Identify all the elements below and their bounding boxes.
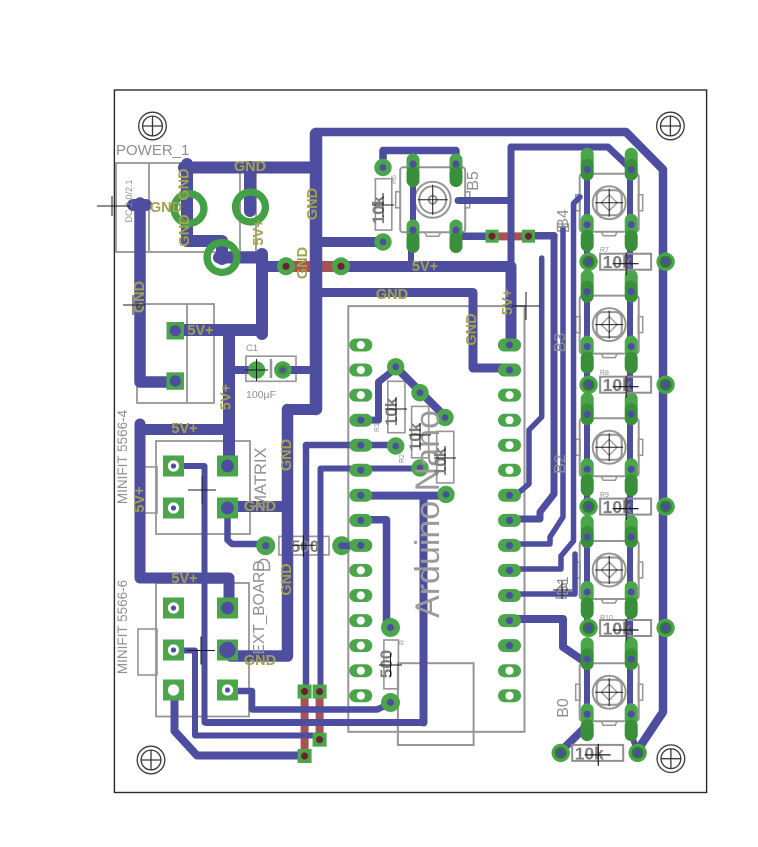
svg-text:10k: 10k [369,195,388,224]
mounting hole bottom-left [137,746,165,774]
wire 5V+ rail top left seg [262,261,284,272]
board outline frame [114,90,706,793]
svg-text:5V+: 5V+ [251,219,267,245]
pads B0 [581,637,638,741]
pad R3 top [436,409,453,426]
wire fan trace 1 [509,258,542,494]
PADS LAYER [163,148,675,766]
resistor R2 body [412,406,429,457]
svg-text:MATRIX: MATRIX [252,447,270,508]
svg-text:B2: B2 [552,454,569,474]
resistor R8 [579,375,674,398]
wire MATRIX pin bus [174,466,205,723]
transistor T1 outline [558,224,569,231]
wire GND top rail power [184,162,316,174]
svg-text:GND: GND [132,281,148,313]
svg-text:R2: R2 [399,454,406,463]
node origin R6 [372,193,394,217]
wire GND top rail to B column [316,132,663,751]
resistor R1 body [388,381,405,432]
wire EXT pin to R11 bottom [228,691,391,710]
wire GND vertical x316 [310,134,323,409]
svg-text:10k: 10k [431,447,450,476]
wire Arduino pin to R11 [361,520,387,623]
pad R1 top [387,358,404,375]
wire B5 right mid [458,197,511,204]
node origin R3 [434,446,456,470]
svg-text:GND: GND [464,313,480,345]
wire R4 link [342,542,362,549]
resistor R4 body [279,536,329,555]
svg-text:GND: GND [295,247,311,279]
wire 5V+ rail top right seg [343,267,511,343]
button B5 silk [396,167,470,236]
svg-text:R7: R7 [600,247,609,254]
resistor R12 bottom [552,743,647,766]
node origin T2 [553,581,572,599]
svg-text:500: 500 [291,537,319,556]
pad R1 bottom [387,437,404,454]
pad POWER square 1 [167,322,185,340]
wire B5 left column [410,165,416,230]
pads red link squares [298,685,327,764]
wire red jumper B5 signal [492,232,529,240]
node origin R1 [385,397,407,421]
wire red jumper 5V+ rail [286,261,341,272]
wire 5V+ left loop [140,424,229,606]
svg-text:R: R [399,640,406,645]
wire GND via ring pad 1 [187,164,222,259]
wire fan trace 3 [508,228,563,544]
Arduino right header pads [498,339,521,703]
pad R2 top [411,384,428,401]
wire button right column vertical [630,167,637,749]
wire EXT pin diagonal GND [175,692,304,756]
resistor R3 body [437,431,454,483]
svg-text:R10: R10 [600,615,613,622]
wire 5V+ rail mid [140,424,229,435]
svg-text:MINIFIT 5566-6: MINIFIT 5566-6 [115,580,130,674]
module Arduino Nano outline [348,306,524,745]
svg-text:100µF: 100µF [246,389,276,401]
svg-text:EXT_BOARD: EXT_BOARD [251,561,268,655]
resistor R11 body [384,640,399,689]
svg-text:GND: GND [305,188,321,220]
svg-text:10k: 10k [382,397,401,426]
svg-text:B5: B5 [465,171,482,191]
pad R11 top [381,618,400,637]
svg-text:POWER_1: POWER_1 [116,142,189,159]
svg-text:GND: GND [279,563,295,595]
wire long vertical x423 [420,496,428,723]
svg-text:5V+: 5V+ [171,571,197,587]
pads B2 [581,392,638,496]
svg-text:R9: R9 [600,492,609,499]
node origin R4 [292,535,316,557]
pad POWER square 2 [167,372,185,390]
wire fan trace 2 [509,236,554,519]
svg-text:GND: GND [177,214,193,246]
wire C1 left tap [229,366,257,374]
wire rail2 to B4 [511,147,629,167]
svg-text:B1: B1 [555,576,572,596]
wire GND left stub [133,199,146,211]
node origin R2 [409,423,431,447]
wire B1 left column [584,539,590,624]
pad R6 bottom [374,233,391,250]
svg-text:5V+: 5V+ [187,323,213,339]
node origin MINIFIT4 [123,295,145,315]
node origin R11 [379,653,402,677]
wire B4 left column [584,162,590,258]
connector POWER_1 outline [116,163,256,403]
pad ring POWER 2 [236,192,266,222]
wire B5 red to fan [529,232,555,240]
mounting hole top-right [657,112,685,140]
wire pad to 5V+ [176,324,262,336]
BOTTOM LAYER (blue) [133,132,663,756]
pad R4 right via [332,536,351,555]
wire jack pin to 5V+ [219,252,262,264]
wire ring pad 2 stub [244,167,256,211]
pads B5 [407,154,463,254]
pads MATRIX connector [163,456,238,519]
resistor R9 [579,497,674,519]
pad ring POWER 1 [174,194,204,224]
pad R4 left [256,536,275,555]
pad via 5V+ red right [332,257,350,275]
svg-text:GND: GND [150,200,182,216]
mounting hole bottom-right [657,745,685,773]
pad via B5 red left [486,230,499,243]
button B0 silk [576,663,643,725]
wire B5 to 5V+ rail [408,235,414,267]
pad C1 plus [248,361,265,378]
pad ring POWER 3 [207,243,237,273]
node origin EXT_BOARD [187,637,215,665]
pad via 5V+ red left [277,257,295,275]
SILKSCREEN LAYER [116,163,569,745]
svg-text:DC 2.0/2.1: DC 2.0/2.1 [124,179,134,222]
node origin POWER_1 [97,196,130,216]
wire red link GND left [301,692,309,756]
pad R2 bottom [411,459,428,476]
pad R6 top [374,159,391,176]
connector MINIFIT 5566-4 / MATRIX outline [138,441,250,534]
NET LABELS (olive) [132,159,516,669]
wire C1 right to GND [283,366,316,374]
svg-text:B4: B4 [555,209,572,229]
svg-text:GND: GND [279,439,295,471]
wire red link signal left [316,692,324,740]
pad via B5 red right [522,230,535,243]
wire Arduino to B0 [508,619,587,663]
svg-text:GND: GND [234,159,266,175]
svg-text:5V+: 5V+ [412,259,438,275]
pad dark overlays [498,339,521,377]
svg-text:GND: GND [376,287,408,303]
wire MATRIX pad to R4 [228,510,263,544]
TOP LAYER (red) [286,236,529,756]
wire pad to R1 top [361,369,396,421]
button B4 silk [576,174,643,236]
svg-text:5V+: 5V+ [219,384,235,410]
node origin C1 [245,359,268,381]
pads B1 [581,515,638,619]
svg-text:B3: B3 [552,333,569,353]
wire B5 out right [456,232,492,240]
wire R6 bottom to GND [316,237,383,247]
svg-text:R1: R1 [374,423,381,432]
capacitor C1 outline [246,356,296,381]
transistor T3 outline [258,559,269,570]
resistor R7 [579,252,674,275]
button B3 silk [576,296,643,358]
wire R1 bottom net [306,442,396,449]
node origin Arduino [512,292,540,320]
pad C1 minus [274,361,291,378]
svg-text:GND: GND [177,168,193,200]
wire diagonal R1 R2 R3 [396,367,447,419]
pads B4 [581,148,638,252]
svg-text:C1: C1 [246,343,258,354]
node origin MATRIX [188,476,216,504]
wire EXT pin to red link [174,651,318,736]
pads EXT_BOARD connector [163,598,238,701]
resistor R10 [579,619,674,642]
Arduino left header pads [349,339,372,703]
svg-text:5V+: 5V+ [171,421,197,437]
mounting hole top-left [139,112,167,140]
pad R3 bottom [437,486,454,503]
svg-text:B0: B0 [555,698,572,718]
wire B5 top link [383,151,456,167]
pads B3 [581,270,638,374]
connector MINIFIT 5566-6 / EXT_BOARD outline [138,583,249,717]
wire 5V+ vertical x514 [508,147,515,270]
wire GND rail to Arduino [316,293,508,369]
wire bottom bus to x423 [206,719,424,726]
wire x306 vertical to red link [303,445,310,688]
ORIGIN CROSSES (black) [97,193,572,677]
transistor T2 outline [556,584,566,598]
COMPONENT VALUES (dark) [291,195,450,678]
svg-text:500: 500 [377,650,396,678]
wire GND left vertical [140,203,172,382]
button B2 silk [576,418,643,480]
pad R11 bottom [381,693,400,712]
wire GND vertical x287 [231,410,288,657]
wire R2 bottom long [321,469,420,689]
svg-text:5V+: 5V+ [500,289,516,315]
button B1 silk [576,541,643,603]
wire GND jog to x287 [288,404,317,415]
svg-text:R8: R8 [600,370,609,377]
wire B0 left column [584,660,590,712]
wire 5V+ down to MATRIX [223,332,235,462]
svg-text:MINIFIT 5566-4: MINIFIT 5566-4 [115,409,130,504]
wire B0 to R left pad [562,726,587,750]
svg-text:5V+: 5V+ [132,486,148,512]
wire fan trace 5 [508,554,575,594]
SILK TEXT (gray) [115,142,613,718]
wire fan trace 4 [509,197,580,569]
wire Arduino pin to R3 pad [362,492,447,500]
svg-text:R6: R6 [391,175,398,184]
wire B2 left column [584,415,590,503]
wire GND branch to MATRIX pad [234,501,288,512]
resistor R6 body [375,179,391,230]
svg-text:10k: 10k [406,422,425,451]
wire B3 left column [584,294,590,381]
wire 5V+ vertical power [256,254,268,334]
